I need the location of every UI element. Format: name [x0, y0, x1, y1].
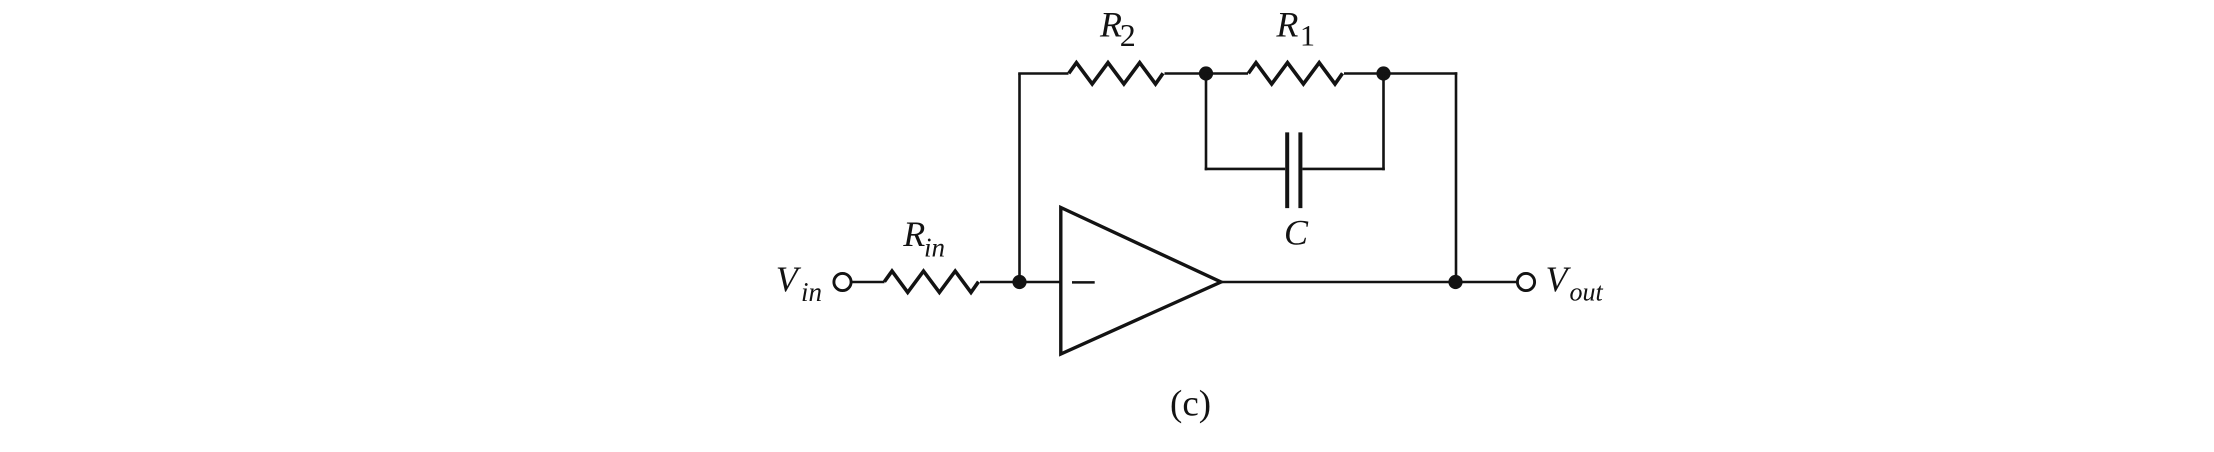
wire node A to R1: [1206, 72, 1248, 75]
svg-text:V: V: [776, 259, 802, 299]
wire R1 to node B: [1344, 72, 1384, 75]
wire capacitor right lead: [1302, 168, 1384, 171]
wire node A down to capacitor: [1205, 74, 1208, 171]
wire op-amp output: [1221, 281, 1517, 284]
svg-text:C: C: [1284, 213, 1309, 253]
terminal Vin: [834, 273, 851, 290]
wire right vertical down to output: [1455, 72, 1458, 282]
wire node up to feedback rail: [1018, 74, 1021, 283]
svg-text:in: in: [924, 233, 945, 263]
node inverting input: [1012, 275, 1026, 289]
svg-text:1: 1: [1300, 20, 1315, 53]
wire capacitor left lead: [1205, 168, 1286, 171]
op-amp U1: [1061, 208, 1221, 355]
node output: [1448, 275, 1462, 289]
svg-text:in: in: [801, 277, 822, 307]
node B: [1376, 66, 1390, 80]
resistor R1: [1248, 63, 1342, 84]
svg-text:R: R: [1099, 5, 1122, 45]
svg-text:2: 2: [1120, 17, 1136, 53]
svg-text:V: V: [1546, 259, 1572, 299]
wire R2 to node A: [1165, 72, 1207, 75]
wire top rail left: [1018, 72, 1068, 75]
wire node B down to capacitor: [1382, 74, 1385, 171]
svg-text:(c): (c): [1170, 384, 1211, 425]
wire node B to top-right corner: [1384, 72, 1458, 75]
resistor R2: [1069, 63, 1163, 84]
capacitor C: [1285, 132, 1289, 208]
terminal Vout: [1517, 273, 1534, 290]
svg-text:R: R: [1275, 5, 1298, 45]
svg-text:R: R: [902, 214, 925, 254]
op-amp inverting input minus sign: [1072, 281, 1095, 284]
svg-text:out: out: [1570, 278, 1604, 307]
wire Rin to op-amp: [980, 281, 1061, 284]
node A: [1199, 66, 1213, 80]
resistor Rin: [884, 271, 978, 292]
wire Vin to Rin: [852, 281, 885, 284]
